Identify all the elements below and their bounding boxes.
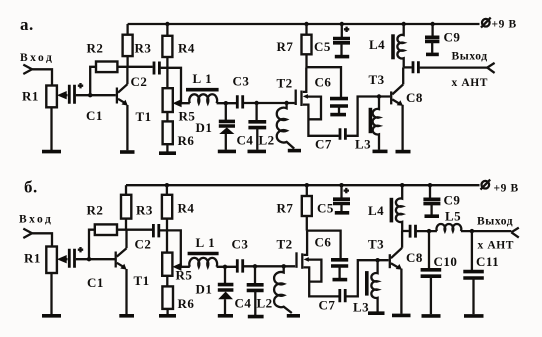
ground under R1 xyxy=(42,150,61,154)
svg-text:C2: C2 xyxy=(131,74,148,89)
ground under L2 xyxy=(287,314,300,318)
R1 wiper arrow from C1 xyxy=(60,258,68,260)
inductor L5 xyxy=(436,224,461,231)
svg-text:R6: R6 xyxy=(178,133,195,148)
svg-text:б.: б. xyxy=(24,178,38,197)
T2 source lead to C7 xyxy=(303,105,339,136)
resistor R2 xyxy=(95,224,117,235)
wire C6 to ground xyxy=(338,266,340,278)
svg-text:R1: R1 xyxy=(24,251,41,266)
svg-text:Выход: Выход xyxy=(477,216,513,228)
svg-text:R5: R5 xyxy=(179,109,196,124)
resistor R5 (tuned by wiper) xyxy=(163,88,173,112)
svg-text:х АНТ: х АНТ xyxy=(478,240,515,252)
svg-text:R6: R6 xyxy=(178,296,195,311)
ground under R1 xyxy=(42,314,61,318)
varicap D1 lead xyxy=(225,103,227,120)
svg-text:Выход: Выход xyxy=(452,51,488,63)
svg-text:C4: C4 xyxy=(237,133,254,148)
svg-text:Вход: Вход xyxy=(20,52,54,64)
svg-text:C10: C10 xyxy=(434,254,458,269)
inductor L1 xyxy=(189,94,217,103)
wire C6 to ground xyxy=(338,106,340,113)
ground under C9 xyxy=(425,214,440,218)
inductor L4 core bar xyxy=(390,198,394,223)
svg-text:C1: C1 xyxy=(87,275,104,290)
ground under C5 xyxy=(335,55,349,59)
svg-text:R3: R3 xyxy=(135,41,152,56)
wire C9 to ground xyxy=(430,204,432,215)
resistor R4 xyxy=(162,36,172,57)
plus sign of C1 xyxy=(78,83,83,88)
inductor L1 xyxy=(189,258,217,267)
ground under C5 xyxy=(335,211,349,215)
svg-text:D1: D1 xyxy=(196,282,213,297)
wire rail to C9 xyxy=(429,185,431,198)
wire T1 collector up xyxy=(125,230,127,249)
wire C2 to R5 wiper and L1 xyxy=(161,68,190,103)
capacitor C7 xyxy=(340,128,345,140)
+9V terminal circle xyxy=(482,19,490,27)
ground under L3 xyxy=(373,150,388,154)
MOSFET T2 gate bar xyxy=(295,252,297,267)
junction rail/C9 xyxy=(428,183,432,187)
junction rail/R4 xyxy=(165,183,169,187)
svg-text:L2: L2 xyxy=(257,296,273,311)
wire rail to R4 xyxy=(166,24,168,36)
wire C8 to C10 node xyxy=(417,230,437,232)
wire T3 collector up xyxy=(401,231,403,248)
R5 wiper arrow xyxy=(173,99,182,107)
+9V terminal circle xyxy=(482,181,490,189)
wire R5 to R6 xyxy=(166,112,168,121)
wire R2 drop to base xyxy=(89,230,95,260)
transistor T1 xyxy=(115,252,117,268)
svg-text:L1: L1 xyxy=(193,71,216,86)
transistor T3 xyxy=(390,91,392,104)
svg-text:R7: R7 xyxy=(277,201,294,216)
wire rail to C5 xyxy=(341,24,343,37)
svg-text:Т3: Т3 xyxy=(368,237,384,252)
resistor R6 xyxy=(162,286,173,309)
capacitor C4 xyxy=(248,122,266,128)
output fork xyxy=(487,63,494,73)
junction rail/C9 xyxy=(430,22,434,26)
plus sign of C5 xyxy=(344,27,349,32)
capacitor C4 lead xyxy=(255,103,257,121)
ground under C4 xyxy=(248,315,264,319)
resistor R2 xyxy=(96,62,117,73)
ground under C9 xyxy=(426,53,439,57)
wire T1 emitter to ground xyxy=(126,105,128,150)
ground under C10 xyxy=(422,314,441,318)
wire rail to R3 xyxy=(126,24,128,35)
wire C11 to ground xyxy=(472,278,474,314)
plus sign of C1 xyxy=(78,247,83,252)
svg-text:C5: C5 xyxy=(317,201,334,216)
svg-text:R5: R5 xyxy=(176,268,193,283)
svg-text:L2: L2 xyxy=(259,133,275,148)
ground under T1 xyxy=(119,314,134,318)
capacitor C8 xyxy=(413,61,418,73)
ground under T3 xyxy=(392,314,411,318)
svg-text:C9: C9 xyxy=(444,193,461,208)
svg-text:T2: T2 xyxy=(277,237,293,252)
svg-text:L1: L1 xyxy=(196,235,219,250)
svg-text:Т1: Т1 xyxy=(134,273,150,288)
R5 wiper arrow xyxy=(172,263,181,271)
resistor R7 xyxy=(302,35,312,55)
junction L2 xyxy=(284,101,288,105)
svg-text:а.: а. xyxy=(20,15,34,34)
T2 substrate arrow xyxy=(304,257,309,262)
svg-text:R3: R3 xyxy=(136,203,153,218)
varicap D1 lead xyxy=(224,267,226,283)
capacitor C9 xyxy=(425,37,439,41)
wire D1 to ground xyxy=(224,299,226,314)
capacitor C11 xyxy=(463,272,484,278)
ground under C6 xyxy=(333,278,348,282)
ground under C6 xyxy=(330,113,346,117)
junction L3 xyxy=(377,94,381,98)
capacitor C11 lead xyxy=(471,231,473,271)
wire R2 to R3 node xyxy=(117,66,152,68)
svg-text:+9 В: +9 В xyxy=(494,183,519,195)
inductor L4 xyxy=(397,24,403,67)
capacitor C2 xyxy=(154,62,159,75)
ground under D1 xyxy=(218,150,236,154)
input antenna fork xyxy=(23,65,32,74)
svg-text:C8: C8 xyxy=(406,90,423,105)
wire L1 to C3 xyxy=(217,266,237,268)
svg-text:Т3: Т3 xyxy=(369,72,385,87)
junction base/R2 xyxy=(87,257,91,261)
ground under C11 xyxy=(464,314,484,318)
wire rail to R7 xyxy=(306,185,308,196)
wire R6 to ground xyxy=(166,144,168,151)
wire R2 drop to base xyxy=(90,67,96,95)
wire L5 to output xyxy=(461,230,511,232)
wire rail to C5 xyxy=(340,185,342,198)
inductor L2 xyxy=(274,266,292,313)
wire T1 collector up xyxy=(126,67,128,84)
capacitor C1 (electrolytic) xyxy=(69,249,74,268)
inductor L3 xyxy=(373,97,379,150)
junction C4 xyxy=(254,101,258,105)
wire R4 to R5 xyxy=(166,57,168,88)
svg-text:R2: R2 xyxy=(87,203,104,218)
MOSFET T2 channel bar xyxy=(300,91,302,107)
capacitor C1 (electrolytic) xyxy=(69,85,74,104)
wire C3 to T2 gate xyxy=(244,265,295,267)
ground under L2 xyxy=(288,149,301,153)
wire R2 to R3 node xyxy=(117,229,152,231)
varicap D1 xyxy=(218,285,234,290)
capacitor C6 xyxy=(331,260,348,266)
T2 gate2-source loop xyxy=(307,260,321,282)
capacitor C10 lead xyxy=(428,231,430,269)
wire R1 to ground xyxy=(50,107,52,150)
resistor R5 (tuned by wiper) xyxy=(162,253,172,276)
svg-text:C7: C7 xyxy=(319,298,336,313)
svg-text:C4: C4 xyxy=(235,296,252,311)
ground under D1 xyxy=(218,314,233,318)
wire C8 to output xyxy=(420,66,488,68)
wire C7 to T3 base xyxy=(346,260,388,296)
svg-text:C8: C8 xyxy=(406,250,423,265)
inductor L1 core bar xyxy=(186,88,219,92)
wire T3 emitter to ground xyxy=(401,105,403,150)
capacitor C4 lead xyxy=(254,266,256,284)
junction D1 xyxy=(223,265,227,269)
capacitor C8 xyxy=(410,225,415,238)
wire rail to R3 xyxy=(125,185,127,195)
wire C1 to T1 base xyxy=(76,258,116,260)
transistor T3 xyxy=(389,254,391,268)
junction rail/R7 xyxy=(304,22,308,26)
capacitor C10 xyxy=(421,270,442,276)
wire R5 to R6 xyxy=(166,276,168,287)
wire rail to R7 xyxy=(305,24,307,35)
wire C5 to ground xyxy=(340,43,342,55)
capacitor C3 xyxy=(237,259,242,272)
svg-text:C2: C2 xyxy=(135,237,152,252)
wire input to R1 xyxy=(32,233,52,246)
svg-text:T1: T1 xyxy=(136,109,152,124)
svg-text:C9: C9 xyxy=(444,30,461,45)
svg-text:R1: R1 xyxy=(22,89,39,104)
junction L2 xyxy=(282,264,286,268)
resistor R3 xyxy=(121,195,131,219)
svg-text:C6: C6 xyxy=(315,75,332,90)
junction rail/L4 xyxy=(400,183,404,187)
wire C4 to ground xyxy=(254,290,256,315)
transistor T1 xyxy=(116,88,118,104)
wire C5 to ground xyxy=(340,204,342,212)
svg-text:R4: R4 xyxy=(178,201,195,216)
wire C4 to ground xyxy=(256,128,258,150)
wire L1 to C3 xyxy=(217,102,237,104)
wire R1 to ground xyxy=(50,273,52,314)
junction C11 xyxy=(470,229,474,233)
T2 gate2-source loop xyxy=(306,97,321,120)
junction L3 xyxy=(375,258,379,262)
inductor L1 core bar xyxy=(188,252,219,256)
ground under R6 xyxy=(159,151,176,155)
wire L4/T3 node to C8 xyxy=(402,230,409,232)
wire C7 to T3 base xyxy=(347,97,390,136)
svg-text:L5: L5 xyxy=(445,209,461,224)
junction rail/R7 xyxy=(305,183,309,187)
inductor L3 core bar xyxy=(365,271,369,296)
wire R3 to collector node xyxy=(125,219,127,230)
MOSFET T2 channel bar xyxy=(301,253,303,268)
wire C10 to ground xyxy=(430,276,432,314)
wire L4/T3 node to C8 xyxy=(404,66,412,68)
junction rail/R4 xyxy=(165,22,169,26)
varicap D1 xyxy=(219,121,235,126)
wire R3 to collector node xyxy=(126,56,128,67)
junction rail/L4 xyxy=(402,22,406,26)
ground under L3 xyxy=(368,311,385,315)
svg-text:T2: T2 xyxy=(277,76,293,91)
wire R4 to R5 xyxy=(166,219,168,253)
svg-text:Вход: Вход xyxy=(19,214,53,226)
svg-text:C3: C3 xyxy=(232,237,249,252)
T2 drain lead xyxy=(304,231,308,255)
wire C1 to T1 base xyxy=(76,94,116,96)
svg-text:C1: C1 xyxy=(86,108,103,123)
wire T3 emitter to ground xyxy=(400,269,402,314)
T2 drain lead xyxy=(303,67,307,92)
wire T3 collector up xyxy=(402,67,404,84)
resistor R4 xyxy=(162,195,172,219)
wire top +9V rail xyxy=(128,23,480,25)
capacitor C3 xyxy=(237,95,242,108)
svg-text:C6: C6 xyxy=(315,235,332,250)
inductor L4 xyxy=(396,185,402,231)
ground under T3 xyxy=(396,150,411,154)
junction D1 xyxy=(224,101,228,105)
capacitor C5 (electrolytic) xyxy=(333,199,350,203)
ground under R6 xyxy=(159,314,176,318)
wire R7 to drain node and C6 xyxy=(307,216,341,259)
wire C3 to T2 gate xyxy=(244,102,295,104)
resistor R6 xyxy=(163,121,173,144)
svg-text:R4: R4 xyxy=(178,41,195,56)
junction rail/C5 xyxy=(340,22,344,26)
svg-text:C11: C11 xyxy=(476,254,499,269)
wire rail to C9 xyxy=(431,24,433,36)
capacitor C6 xyxy=(330,99,348,106)
MOSFET T2 gate bar xyxy=(295,90,297,106)
capacitor C2 xyxy=(153,224,158,237)
wire C2 to R5 wiper and L1 xyxy=(160,230,190,266)
capacitor C9 xyxy=(423,199,440,203)
capacitor C5 (electrolytic) xyxy=(333,39,350,43)
wire bottom +9V rail xyxy=(126,184,480,186)
ground under C4 xyxy=(248,150,267,154)
inductor L3 xyxy=(371,260,377,311)
junction C4 xyxy=(253,264,257,268)
svg-text:C7: C7 xyxy=(315,137,332,152)
plus sign of C5 xyxy=(344,188,349,193)
svg-text:L4: L4 xyxy=(369,37,385,52)
inductor L3 core bar xyxy=(369,108,373,133)
junction base/R2 xyxy=(88,93,92,97)
inductor L2 xyxy=(277,103,294,149)
svg-text:х АНТ: х АНТ xyxy=(452,77,489,89)
wire T1 emitter to ground xyxy=(125,269,127,314)
svg-text:+9 В: +9 В xyxy=(492,19,517,31)
output fork xyxy=(511,228,519,238)
wire R7 to drain node and C6 xyxy=(306,54,341,97)
svg-text:D1: D1 xyxy=(196,120,213,135)
ground under T1 xyxy=(120,150,135,154)
svg-text:C3: C3 xyxy=(233,74,250,89)
svg-text:R2: R2 xyxy=(87,41,104,56)
svg-text:R7: R7 xyxy=(277,39,294,54)
resistor R1 (potentiometer) xyxy=(46,86,57,108)
capacitor C4 xyxy=(247,285,264,291)
junction rail/C5 xyxy=(339,183,343,187)
wire R6 to ground xyxy=(166,309,168,314)
wire C9 to ground xyxy=(431,41,433,52)
inductor L4 core bar xyxy=(391,34,395,59)
wire D1 to ground xyxy=(225,134,227,150)
junction C10 xyxy=(427,229,431,233)
T2 source lead to C7 xyxy=(304,267,339,296)
resistor R3 xyxy=(123,35,133,56)
svg-text:C5: C5 xyxy=(314,39,331,54)
T2 substrate arrow xyxy=(303,94,308,99)
svg-text:L3: L3 xyxy=(355,137,371,152)
resistor R1 (potentiometer) xyxy=(46,247,57,274)
R1 wiper arrow from C1 xyxy=(60,94,68,96)
resistor R7 xyxy=(302,196,312,216)
wire input to R1 xyxy=(32,69,52,85)
wire rail to R4 xyxy=(166,185,168,195)
input antenna fork xyxy=(23,229,32,238)
svg-text:L3: L3 xyxy=(353,300,369,315)
capacitor C7 xyxy=(340,289,345,302)
svg-text:L4: L4 xyxy=(368,203,384,218)
